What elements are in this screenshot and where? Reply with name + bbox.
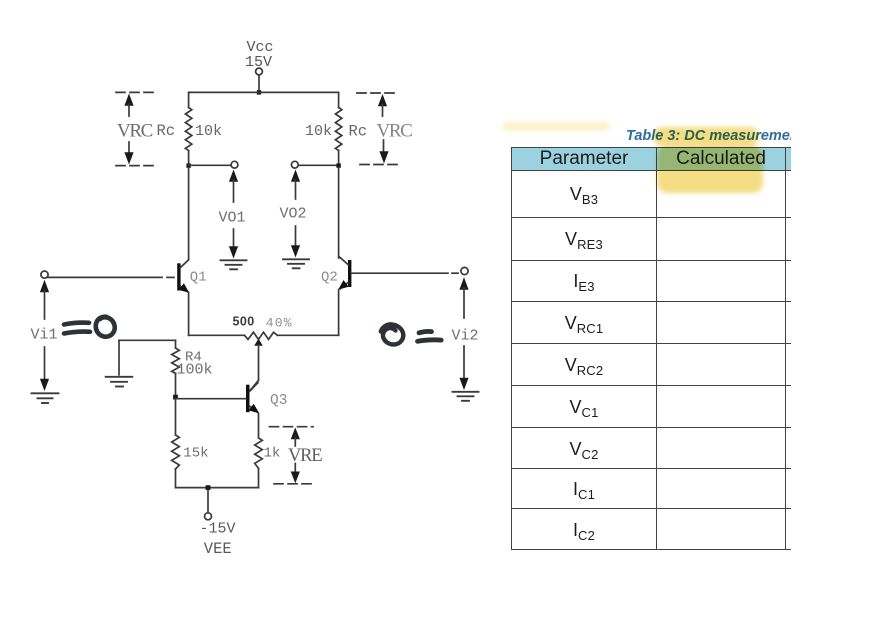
potentiometer 500 <box>245 332 278 339</box>
potentiometer wiper arrow <box>254 339 263 381</box>
annotation arrow Vi1 upper <box>40 280 49 319</box>
ground Vi2 <box>453 392 479 401</box>
handwritten zero right <box>381 324 403 344</box>
wire Vi1 to Q1 base <box>48 276 174 278</box>
annotation arrow Vi2 upper <box>459 277 468 318</box>
wire R4 to base node <box>175 373 177 397</box>
annotation arrow VO1 upper <box>229 170 238 203</box>
handwritten equals left <box>64 323 90 334</box>
wire Q2 base to Vi2 <box>351 272 458 274</box>
svg-text:Q3: Q3 <box>270 393 287 409</box>
annotation VRC left dashed bottom <box>116 165 156 167</box>
svg-text:10k: 10k <box>195 123 222 140</box>
wire base node to Q3 <box>176 398 246 400</box>
annotation arrow Vi2 lower <box>459 346 468 390</box>
annotation VRE dashed top <box>270 426 314 428</box>
highlighter blob over caption <box>653 127 759 146</box>
transistor Q2 <box>338 257 351 290</box>
svg-text:10k: 10k <box>305 123 332 140</box>
wire 1k to bottom rail <box>258 469 260 488</box>
svg-text:VRC: VRC <box>117 120 153 141</box>
annotation VRC left dashed top <box>116 91 155 93</box>
table caption <box>626 128 812 144</box>
node Vcc rail junction <box>257 90 261 94</box>
wire rail to Rc2 <box>338 92 340 107</box>
wire bottom rail right <box>277 334 338 336</box>
annotation arrow Vi1 lower <box>40 347 49 391</box>
svg-text:Q1: Q1 <box>190 270 207 286</box>
wire bottom rail left <box>189 334 245 336</box>
wire Q2 collector down <box>338 168 340 258</box>
svg-text:VRE: VRE <box>288 446 322 466</box>
ground VO2 <box>283 259 309 268</box>
svg-text:-15V: -15V <box>200 521 236 538</box>
wire ground tee horizontal <box>119 339 176 341</box>
ground VO1 <box>221 260 247 269</box>
node VEE junction <box>206 485 211 490</box>
svg-text:Rc: Rc <box>349 123 368 141</box>
wire Q3 emitter to 1k <box>258 414 260 438</box>
annotation arrow VO1 lower <box>229 229 238 259</box>
transistor Q3 <box>246 383 259 414</box>
svg-text:VO2: VO2 <box>280 206 307 223</box>
table 3 grid <box>511 147 872 550</box>
svg-text:Rc: Rc <box>157 122 176 140</box>
wire Rc1 node to Q1 collector <box>188 168 190 260</box>
wire node to VO2 terminal <box>298 164 339 166</box>
annotation VRC right dashed bottom <box>360 164 402 166</box>
wire 15k to bottom rail <box>175 469 177 488</box>
wire Q1 emitter down <box>188 293 190 336</box>
highlighter streak top-left of caption <box>502 122 610 131</box>
annotation VRE dashed bottom <box>274 483 314 485</box>
svg-text:40%: 40% <box>266 315 293 330</box>
annotation VRC right arrow <box>378 94 389 164</box>
annotation VRE arrow <box>291 428 300 484</box>
node left collector junction <box>186 163 190 167</box>
label Vcc 15V <box>245 39 274 71</box>
annotation VRC right dashed top <box>357 92 396 94</box>
wire VEE bottom rail <box>176 487 259 489</box>
svg-text:VEE: VEE <box>204 540 232 558</box>
wire to R4 <box>175 340 177 348</box>
highlighter blob over Calculated cell <box>657 146 763 193</box>
svg-text:15k: 15k <box>183 445 208 461</box>
resistor 15k <box>172 435 180 469</box>
terminal VO1 <box>231 161 238 168</box>
wire rail to Rc1 <box>188 92 190 107</box>
resistor R4 100k <box>172 348 180 373</box>
terminal Vi2 <box>461 267 468 274</box>
svg-text:1k: 1k <box>264 445 281 461</box>
handwritten equals right <box>418 331 442 341</box>
node Q3 base junction <box>173 395 178 400</box>
handwritten zero left <box>96 317 115 337</box>
svg-text:Vi2: Vi2 <box>452 328 479 345</box>
wire node to VO1 terminal <box>189 164 231 166</box>
node right collector junction <box>336 163 340 167</box>
svg-text:Q2: Q2 <box>321 270 338 286</box>
svg-text:500: 500 <box>233 315 255 329</box>
svg-text:Vi1: Vi1 <box>31 327 58 344</box>
terminal Vi1 <box>41 271 48 278</box>
wire base node to 15k <box>175 399 177 435</box>
resistor Rc1 10k left <box>185 108 191 151</box>
terminal VEE <box>205 513 212 520</box>
wire top rail <box>189 91 339 93</box>
annotation VRC left arrow <box>124 94 133 165</box>
annotation arrow VO2 lower <box>291 226 300 258</box>
wire Vcc to rail <box>258 75 260 92</box>
wire VEE junction down <box>207 490 209 513</box>
svg-text:VO1: VO1 <box>219 210 246 227</box>
resistor Rc2 10k right <box>335 108 341 151</box>
resistor 1k <box>255 438 263 468</box>
svg-text:100k: 100k <box>177 361 213 378</box>
terminal VO2 <box>291 161 298 168</box>
annotation arrow VO2 upper <box>291 170 300 200</box>
wire Rc1 to node <box>188 151 190 166</box>
transistor Q1 <box>177 260 189 293</box>
wire ground riser <box>118 340 120 375</box>
wire Q2 emitter down <box>338 290 340 336</box>
svg-text:VRC: VRC <box>377 120 413 141</box>
ground Vi1 <box>32 393 59 403</box>
terminal Vcc <box>256 68 263 75</box>
wire Rc2 to node <box>338 151 340 166</box>
ground mid <box>106 377 133 387</box>
wire wiper to Q3 collector <box>250 381 258 391</box>
